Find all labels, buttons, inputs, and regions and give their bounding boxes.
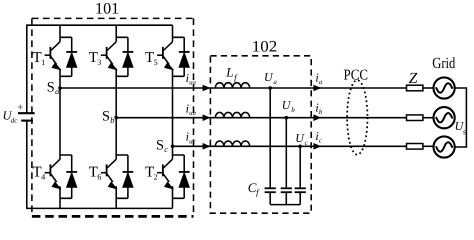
wire: T4 emitter down to DC- bus / connector from D4 — [60, 186, 72, 208]
diode D5 (antiparallel, cathode up) — [179, 37, 190, 76]
node Sb (junction) — [114, 116, 118, 120]
DC- bus (bottom rail) — [27, 121, 173, 209]
svg-text:b: b — [319, 109, 323, 116]
PCC boundary (dotted ellipse) — [347, 80, 367, 154]
AC source Vga (grid phase) — [434, 77, 455, 98]
wire: T2 top connector from phase node to D2 — [173, 155, 185, 159]
AC source Vgb (grid phase) — [434, 107, 455, 128]
impedance Z-a (grid impedance box) — [407, 85, 423, 91]
node Ub (junction) — [285, 116, 289, 120]
DC+ bus (top rail) — [27, 25, 173, 113]
transistor T5 (IGBT) — [157, 42, 174, 70]
svg-text:S: S — [156, 138, 164, 154]
svg-text:2: 2 — [154, 173, 158, 182]
svg-text:Grid: Grid — [432, 55, 455, 72]
svg-text:c: c — [164, 145, 168, 154]
wire: capacitor star-point bus — [270, 204, 300, 206]
capacitor Cf-b — [281, 188, 292, 204]
dashed box 101 (inverter) — [32, 18, 194, 216]
diode D1 (antiparallel, cathode up) — [66, 37, 77, 76]
arrow iub — [203, 114, 211, 121]
inductor Lf phase b — [215, 112, 249, 117]
svg-text:a: a — [273, 78, 277, 86]
svg-text:dc: dc — [11, 116, 19, 124]
svg-text:5: 5 — [154, 58, 158, 67]
wire: Z-a to source a — [423, 87, 434, 89]
impedance Z-c (grid impedance box) — [407, 144, 423, 150]
svg-text:b: b — [110, 116, 114, 125]
wire: leg a midsection — [59, 76, 61, 155]
svg-text:3: 3 — [97, 58, 101, 67]
node Ua (junction) — [268, 86, 272, 90]
arrow iuc — [203, 143, 211, 150]
wire: leg c midsection — [172, 76, 174, 155]
wire: T6 top connector from phase node to D6 — [116, 155, 128, 159]
svg-text:uc: uc — [189, 138, 195, 145]
svg-text:101: 101 — [95, 0, 119, 17]
wire: phase c line from node Sc — [173, 145, 407, 147]
wire: drop from node to capacitor Cf-a — [269, 88, 271, 188]
wire: T6 emitter down to DC- bus / connector from D6 — [116, 186, 128, 208]
svg-text:a: a — [55, 87, 59, 96]
transistor T2 (IGBT) — [157, 159, 174, 189]
wire: phase b line from node Sb — [116, 117, 406, 119]
diode D3 (antiparallel, cathode up) — [123, 37, 134, 76]
wire: leg b midsection — [115, 76, 117, 155]
diode D6 (antiparallel, cathode up) — [123, 155, 134, 198]
dashed box 102 (LC filter) — [210, 56, 311, 213]
capacitor Cf-c — [295, 188, 306, 204]
arrow ic — [313, 143, 321, 150]
arrow ib — [313, 114, 321, 121]
svg-text:ub: ub — [189, 110, 196, 117]
svg-text:6: 6 — [97, 173, 101, 182]
wire: T1 top node, collector drop and connector to D1 — [60, 25, 72, 42]
svg-text:c: c — [319, 138, 322, 145]
transistor T1 (IGBT) — [45, 42, 62, 70]
svg-text:ua: ua — [189, 80, 196, 87]
wire: T4 top connector from phase node to D4 — [60, 155, 72, 159]
inductor Lf phase c — [215, 141, 249, 146]
wire: Z-c to source c — [423, 145, 434, 147]
svg-text:b: b — [291, 106, 295, 114]
svg-text:S: S — [102, 109, 110, 125]
inductor Lf phase a — [215, 83, 249, 88]
svg-text:1: 1 — [41, 58, 45, 67]
transistor T6 (IGBT) — [101, 159, 118, 189]
node Uc (junction) — [298, 145, 302, 149]
wire: grid neutral bus (right side) — [455, 88, 467, 147]
wire: T1 emitter junction down / bottom connector from D1 — [60, 69, 72, 77]
diode D2 (antiparallel, cathode up) — [179, 155, 190, 198]
svg-text:4: 4 — [41, 173, 45, 182]
node Sa (junction) — [58, 86, 62, 90]
wire: T3 top node, collector drop and connector to D3 — [116, 25, 128, 42]
arrow iua (inverter output current a) — [203, 85, 211, 92]
wire: T3 emitter junction down / bottom connector from D3 — [116, 69, 128, 77]
wire: phase a line from node Sa to grid impedance — [60, 87, 407, 89]
node Sc (junction) — [171, 145, 175, 149]
arrow ia (grid current a) — [313, 85, 321, 92]
wire: T5 top node, collector drop and connector to D5 — [173, 25, 185, 42]
wire: drop from node to capacitor Cf-b — [285, 118, 287, 189]
wire: T5 emitter junction down / bottom connector from D5 — [173, 69, 185, 77]
svg-text:L: L — [225, 65, 233, 80]
AC source Vgc (grid phase) — [434, 136, 455, 157]
transistor T3 (IGBT) — [101, 42, 118, 70]
impedance Z-b (grid impedance box) — [407, 115, 423, 121]
capacitor Cf-a — [265, 188, 276, 204]
svg-text:+: + — [17, 103, 23, 114]
wire: Z-b to source b — [423, 117, 434, 119]
transistor T4 (IGBT) — [45, 159, 62, 189]
svg-text:S: S — [47, 80, 55, 96]
diode D4 (antiparallel, cathode up) — [66, 155, 77, 198]
svg-text:a: a — [319, 79, 323, 86]
wire: T2 emitter down to DC- bus / connector from D2 — [173, 186, 185, 208]
svg-text:Z: Z — [409, 70, 418, 87]
DC source Udc (battery bars) — [18, 113, 35, 120]
wire: drop from node to capacitor Cf-c — [299, 146, 301, 188]
svg-text:PCC: PCC — [344, 67, 369, 83]
svg-text:102: 102 — [252, 39, 277, 56]
